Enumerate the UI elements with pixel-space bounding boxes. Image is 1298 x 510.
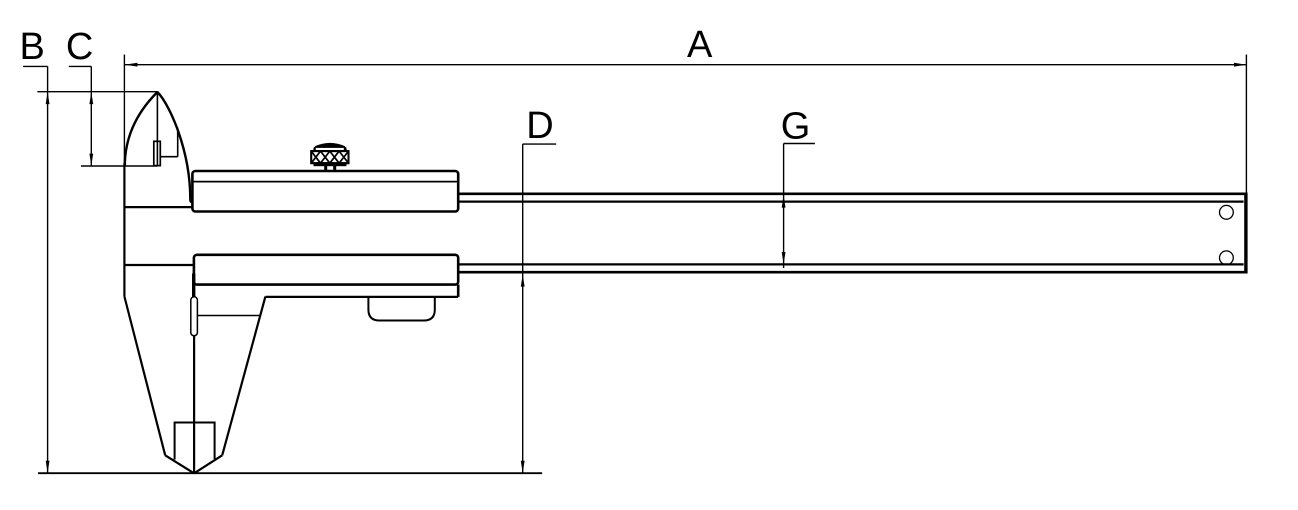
svg-text:G: G [781, 105, 811, 147]
svg-text:D: D [526, 105, 553, 147]
svg-text:B: B [20, 26, 45, 68]
svg-text:A: A [687, 24, 713, 66]
svg-text:C: C [66, 26, 93, 68]
